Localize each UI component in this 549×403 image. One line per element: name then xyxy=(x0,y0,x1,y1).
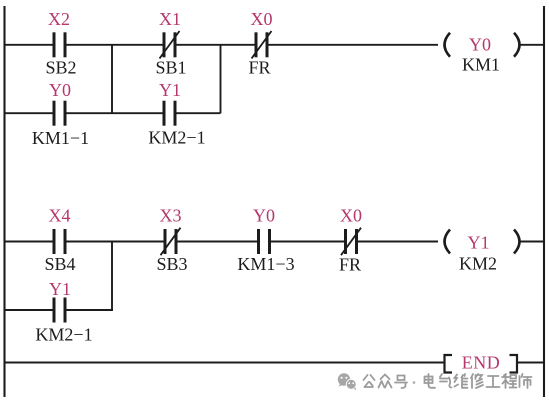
right power rail xyxy=(543,6,545,397)
wire rung1 rail to X2 xyxy=(5,44,53,46)
watermark text 公众号·电气维修工程师 xyxy=(364,374,532,388)
svg-text:Y1: Y1 xyxy=(468,233,490,253)
coil Y1 (KM2) xyxy=(445,230,520,254)
END instruction brackets xyxy=(445,355,518,373)
电 xyxy=(425,374,436,388)
wire rung2 X4 to X3 xyxy=(67,241,164,243)
svg-text:SB1: SB1 xyxy=(155,58,186,78)
wire rung2 X0 to coil Y1 xyxy=(358,241,438,243)
coil Y0 (KM1) xyxy=(445,33,520,57)
气 xyxy=(440,374,452,388)
watermark wechat icon xyxy=(338,373,356,390)
svg-text:KM2: KM2 xyxy=(459,254,497,274)
师 xyxy=(520,374,532,388)
contact Y1 (KM2-1) NO branch2 xyxy=(53,298,67,323)
svg-text:Y1: Y1 xyxy=(159,80,181,100)
svg-text:KM2−1: KM2−1 xyxy=(35,325,92,345)
wire branch1 rail to Y0 contact xyxy=(5,112,53,114)
修 xyxy=(471,374,483,388)
svg-text:FR: FR xyxy=(339,255,361,275)
svg-text:Y1: Y1 xyxy=(49,279,71,299)
号 xyxy=(395,376,407,389)
contact Y0 (KM1-1) NO branch1 xyxy=(53,101,67,126)
wire rung1 X2 to X1 xyxy=(67,44,163,46)
svg-text:X4: X4 xyxy=(49,206,71,226)
wire END rung rail to bracket xyxy=(5,362,444,364)
wire branch2 vertical at node after X4 xyxy=(111,242,113,311)
wire branch1 Y1 to node xyxy=(177,112,221,114)
svg-text:FR: FR xyxy=(248,58,270,78)
wire END bracket to right rail xyxy=(518,362,544,364)
svg-text:KM1−3: KM1−3 xyxy=(237,254,294,274)
wire rung2 coil Y1 to right rail xyxy=(520,241,544,243)
svg-text:END: END xyxy=(462,353,501,373)
维 xyxy=(455,374,468,388)
wire rung1 X0 to coil Y0 xyxy=(269,44,439,46)
wire branch1 vertical at node after X1 xyxy=(220,45,222,113)
wire branch1 vertical at node after X2 xyxy=(111,45,113,113)
工 xyxy=(487,376,500,387)
contact X2 (SB2) NO xyxy=(53,32,67,57)
contact X0 (FR) NC rung2 xyxy=(341,228,361,256)
众 xyxy=(379,375,392,388)
svg-text:Y0: Y0 xyxy=(49,80,71,100)
contact X3 (SB3) NC xyxy=(161,228,181,256)
left power rail xyxy=(3,6,5,397)
contact X1 (SB1) NC xyxy=(160,31,180,59)
svg-text:SB3: SB3 xyxy=(156,254,187,274)
wire rung2 Y0 contact to X0 xyxy=(271,241,344,243)
svg-text:KM1: KM1 xyxy=(462,55,500,75)
svg-text:KM2−1: KM2−1 xyxy=(148,128,205,148)
svg-text:X3: X3 xyxy=(160,206,182,226)
contact X0 (FR) NC rung1 xyxy=(252,31,272,59)
wire branch2 rail to Y1 contact xyxy=(5,309,53,311)
svg-text:X0: X0 xyxy=(251,9,273,29)
middle dot xyxy=(413,381,416,384)
wire branch1 Y0 to Y1 contact xyxy=(67,112,163,114)
wire rung1 coil Y0 to right rail xyxy=(520,44,544,46)
公 xyxy=(364,375,375,387)
svg-text:SB4: SB4 xyxy=(44,254,75,274)
svg-text:KM1−1: KM1−1 xyxy=(32,128,89,148)
wire rung2 rail to X4 xyxy=(5,241,53,243)
svg-text:X2: X2 xyxy=(48,9,70,29)
svg-text:X1: X1 xyxy=(159,9,181,29)
wire branch2 Y1 contact to node xyxy=(67,309,114,311)
svg-text:Y0: Y0 xyxy=(469,34,491,54)
svg-text:Y0: Y0 xyxy=(253,206,275,226)
contact Y0 (KM1-3) NO rung2 xyxy=(257,229,271,254)
contact Y1 (KM2-1) NO branch1 xyxy=(163,101,177,126)
svg-text:X0: X0 xyxy=(340,206,362,226)
wire rung2 X3 to Y0 contact xyxy=(178,241,258,243)
contact X4 (SB4) NO xyxy=(53,229,67,254)
程 xyxy=(502,374,517,388)
svg-text:SB2: SB2 xyxy=(45,58,76,78)
wire rung1 X1 to X0 xyxy=(177,44,255,46)
